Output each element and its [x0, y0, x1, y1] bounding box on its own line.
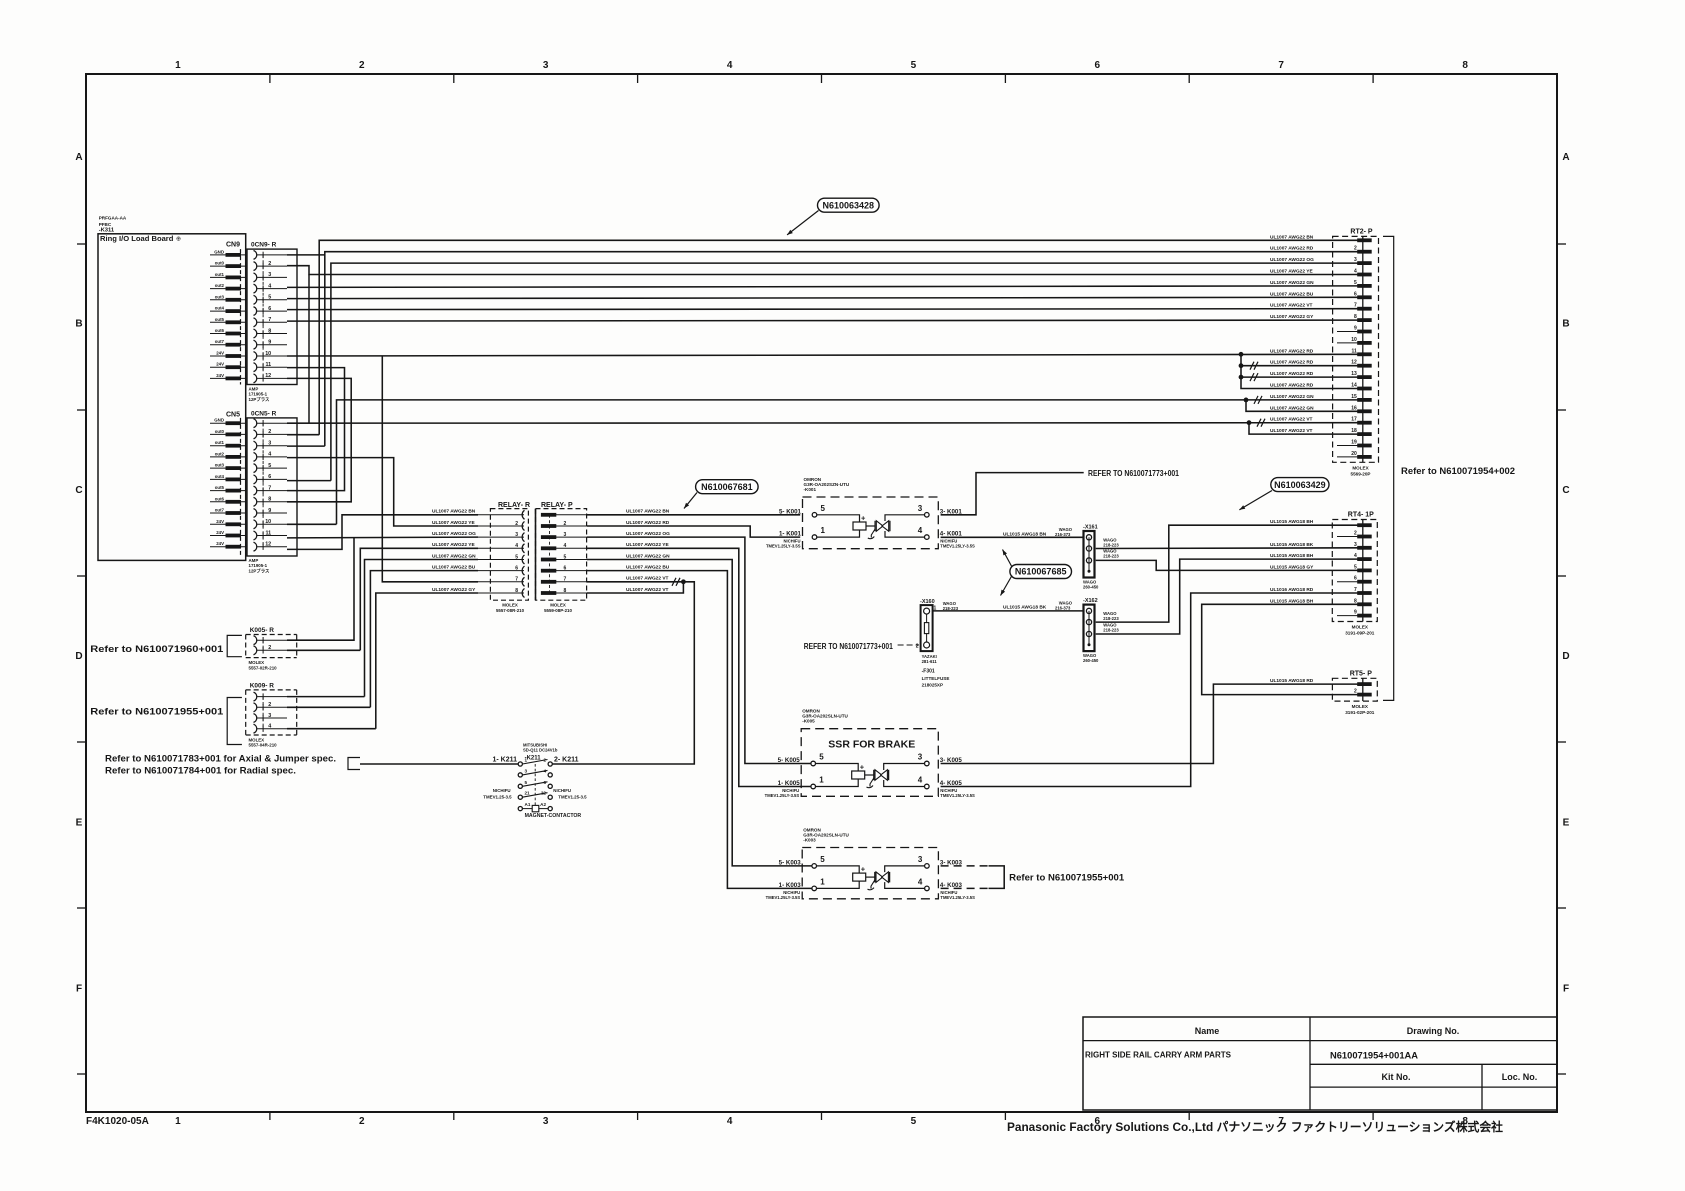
svg-text:+: +	[860, 763, 865, 772]
svg-text:UL1015 AWG18 BH: UL1015 AWG18 BH	[1270, 519, 1314, 525]
svg-text:0CN5- R: 0CN5- R	[251, 410, 277, 417]
svg-text:1: 1	[175, 60, 181, 71]
svg-text:RELAY- P: RELAY- P	[541, 502, 573, 509]
wire jumper RT2-P pin18	[1249, 423, 1362, 434]
svg-text:0CN9- R: 0CN9- R	[251, 242, 277, 249]
svg-text:UL1007 AWG22 RD: UL1007 AWG22 RD	[1270, 371, 1314, 377]
svg-text:LITTELFUSE: LITTELFUSE	[922, 676, 950, 681]
svg-text:RT4- 1P: RT4- 1P	[1348, 512, 1374, 519]
svg-text:5: 5	[268, 295, 271, 301]
connector RT2-P	[1333, 228, 1379, 476]
solid-state relay K005	[765, 709, 975, 798]
svg-text:12: 12	[265, 542, 271, 548]
svg-text:3: 3	[268, 713, 271, 719]
svg-text:UL1007 AWG22 GY: UL1007 AWG22 GY	[1270, 314, 1314, 320]
magnet contactor -K211	[483, 743, 587, 820]
svg-text:Kit No.: Kit No.	[1382, 1072, 1411, 1082]
svg-text:218-223: 218-223	[1103, 616, 1119, 621]
svg-text:out0: out0	[215, 429, 225, 434]
wire RELAY-P pin8 VT	[587, 582, 683, 593]
svg-text:UL1007 AWG22 BU: UL1007 AWG22 BU	[626, 564, 670, 570]
svg-text:TMEV1.25LY-3.5S: TMEV1.25LY-3.5S	[766, 544, 801, 549]
svg-text:24V: 24V	[216, 519, 224, 524]
svg-text:MAGNET-CONTACTOR: MAGNET-CONTACTOR	[525, 813, 582, 819]
svg-text:RIGHT SIDE RAIL CARRY ARM PART: RIGHT SIDE RAIL CARRY ARM PARTS	[1085, 1051, 1231, 1060]
svg-text:out0: out0	[215, 261, 225, 266]
svg-text:UL1007 AWG22 VT: UL1007 AWG22 VT	[1270, 417, 1313, 423]
svg-text:4: 4	[268, 452, 271, 458]
svg-text:UL1007 AWG22 BU: UL1007 AWG22 BU	[432, 564, 476, 570]
svg-text:8: 8	[268, 328, 271, 334]
wire RELAY-R pin8 to K009-R pin4	[376, 593, 478, 729]
svg-text:out7: out7	[215, 339, 225, 344]
svg-text:20: 20	[1351, 451, 1357, 457]
svg-text:24V: 24V	[216, 530, 224, 535]
terminal block -X161	[1084, 531, 1095, 578]
svg-text:UL1007 AWG22 GY: UL1007 AWG22 GY	[432, 587, 476, 593]
wire CN5 24V to RT2-P pin15	[337, 400, 1363, 524]
svg-text:4: 4	[1354, 553, 1357, 559]
svg-text:3: 3	[268, 272, 271, 278]
terminal block -X162	[1084, 605, 1095, 652]
wire RELAY-R pin6 to K009-R pin2	[370, 571, 478, 708]
svg-text:9: 9	[1354, 610, 1357, 616]
svg-text:10: 10	[1351, 337, 1357, 343]
svg-text:-K003: -K003	[803, 838, 816, 843]
balloon N610063429	[1239, 478, 1329, 510]
svg-text:UL1007 AWG22 YE: UL1007 AWG22 YE	[1270, 269, 1313, 275]
svg-text:GND: GND	[214, 249, 224, 254]
svg-text:2: 2	[268, 261, 271, 267]
wire RELAY-P pin5 GN to K003 pin5	[587, 560, 812, 866]
svg-text:5: 5	[821, 504, 826, 513]
svg-text:Loc. No.: Loc. No.	[1502, 1072, 1538, 1082]
svg-text:out4: out4	[215, 306, 225, 311]
svg-text:1: 1	[525, 758, 528, 763]
svg-text:N610071954+001AA: N610071954+001AA	[1330, 1051, 1418, 1062]
svg-text:F4K1020-05A: F4K1020-05A	[86, 1116, 149, 1127]
svg-text:C: C	[75, 485, 82, 496]
svg-text:12Pプラス: 12Pプラス	[249, 567, 271, 574]
svg-text:16: 16	[1351, 405, 1357, 411]
wire K005 pin4 to RT4-1P pin7	[941, 593, 1362, 787]
svg-text:11: 11	[265, 530, 271, 536]
svg-text:REFER TO N610071773+001: REFER TO N610071773+001	[804, 642, 893, 651]
svg-text:281-611: 281-611	[922, 659, 938, 664]
svg-text:Refer to N610071955+001: Refer to N610071955+001	[1009, 873, 1125, 884]
svg-text:5: 5	[1354, 280, 1357, 286]
reference bracket for K005-R	[227, 635, 242, 656]
svg-text:Refer to N610071955+001: Refer to N610071955+001	[90, 707, 224, 718]
svg-text:3: 3	[1354, 257, 1357, 263]
svg-text:B: B	[1562, 319, 1569, 330]
svg-text:2: 2	[268, 429, 271, 435]
svg-text:A1: A1	[525, 802, 531, 807]
wire labels at RELAY-R inputs	[432, 509, 476, 593]
svg-text:TMEV1.25LY-3.5S: TMEV1.25LY-3.5S	[765, 793, 800, 798]
wire stub RT2-P pin12	[1241, 365, 1362, 367]
svg-text:6: 6	[268, 306, 271, 312]
wire CN5 24V-2 to RELAY-R pin3 and K005-R pin1	[287, 536, 478, 539]
svg-text:24V: 24V	[216, 373, 224, 378]
svg-text:13: 13	[1351, 371, 1357, 377]
svg-text:out5: out5	[215, 485, 225, 490]
svg-text:3: 3	[564, 532, 567, 538]
svg-text:CN5: CN5	[226, 412, 240, 419]
svg-text:4: 4	[727, 1116, 733, 1127]
svg-text:5557-08R-210: 5557-08R-210	[496, 608, 525, 613]
drawing border frame	[77, 74, 1566, 1120]
svg-text:A: A	[1562, 152, 1569, 163]
connector RT5-P	[1332, 670, 1377, 715]
reference note N610071783 N610071784	[105, 754, 336, 776]
svg-text:2- K211: 2- K211	[554, 757, 579, 764]
svg-text:D: D	[1562, 651, 1569, 662]
svg-text:3191-02P-201: 3191-02P-201	[1345, 710, 1375, 715]
svg-text:10: 10	[265, 351, 271, 357]
svg-text:4: 4	[918, 526, 923, 535]
header CN5 on load board	[210, 412, 246, 549]
svg-text:260-450: 260-450	[1083, 585, 1099, 590]
svg-text:4: 4	[268, 283, 271, 289]
svg-text:1- K211: 1- K211	[492, 757, 517, 764]
svg-text:UL1007 AWG22 BU: UL1007 AWG22 BU	[1270, 291, 1314, 297]
svg-text:11: 11	[265, 362, 271, 368]
svg-text:out4: out4	[215, 474, 225, 479]
svg-text:UL1015 AWG18 BH: UL1015 AWG18 BH	[1270, 553, 1314, 559]
wire CN9 24V-2 to CN5 out5	[287, 368, 345, 491]
svg-text:TMEV1.25-3.5: TMEV1.25-3.5	[558, 795, 587, 800]
svg-text:UL1007 AWG22 GN: UL1007 AWG22 GN	[626, 553, 670, 559]
svg-text:3: 3	[525, 768, 528, 773]
svg-text:out3: out3	[215, 463, 225, 468]
svg-text:N610063429: N610063429	[1274, 480, 1326, 490]
reference bracket for K009-R	[227, 698, 242, 745]
svg-text:24V: 24V	[216, 541, 224, 546]
svg-text:8: 8	[1354, 314, 1357, 320]
connector RELAY-R	[478, 502, 530, 613]
svg-text:out3: out3	[215, 294, 225, 299]
svg-text:N610063428: N610063428	[823, 200, 875, 210]
svg-text:GND: GND	[214, 418, 224, 423]
svg-text:TMEV1.25LY-3.5S: TMEV1.25LY-3.5S	[766, 895, 801, 900]
svg-text:12: 12	[265, 373, 271, 379]
svg-text:6: 6	[268, 474, 271, 480]
grid column labels	[175, 60, 1468, 1127]
wire CN5 24V pin12 to RELAY-R pin1	[287, 515, 478, 550]
svg-text:B: B	[75, 319, 82, 330]
svg-text:Refer to N610071954+002: Refer to N610071954+002	[1401, 466, 1515, 477]
wire RELAY-P pin4 YE to K005 pin1	[587, 548, 812, 786]
svg-text:216-373: 216-373	[1055, 532, 1071, 537]
wire RELAY-P pin6 BU to K003 pin1	[587, 571, 812, 889]
svg-text:out6: out6	[215, 328, 225, 333]
svg-text:out2: out2	[215, 451, 225, 456]
wire labels RT4-1P	[1270, 519, 1314, 604]
svg-text:UL1007 AWG22 VT: UL1007 AWG22 VT	[1270, 428, 1313, 434]
svg-text:-X161: -X161	[1083, 525, 1098, 531]
svg-text:3: 3	[543, 60, 549, 71]
svg-text:260-450: 260-450	[1083, 658, 1099, 663]
svg-text:UL1007 AWG22 RD: UL1007 AWG22 RD	[1270, 383, 1314, 389]
svg-text:2: 2	[564, 521, 567, 527]
wire K001 pin4 to X161 pin1	[941, 536, 1084, 538]
solid-state relay K001	[766, 477, 975, 549]
svg-text:E: E	[76, 817, 83, 828]
svg-text:218025XP: 218025XP	[922, 683, 943, 688]
svg-text:8: 8	[564, 588, 567, 594]
wire fuse X160 to X162 pin1	[933, 610, 1084, 612]
svg-text:E: E	[1563, 817, 1570, 828]
svg-text:⊕: ⊕	[176, 237, 181, 243]
svg-text:5: 5	[525, 780, 528, 785]
svg-text:UL1007 AWG22 RD: UL1007 AWG22 RD	[626, 520, 670, 526]
svg-text:MOLEX: MOLEX	[502, 603, 518, 608]
connector 0CN5-R	[241, 410, 298, 574]
wire CN5 out0 to RT2-P pin1	[319, 240, 1362, 434]
wire CN5 out3 to RT2-P pin3	[331, 263, 1362, 481]
svg-text:6: 6	[1354, 291, 1357, 297]
svg-text:218-223: 218-223	[1103, 543, 1119, 548]
svg-text:5569-20P: 5569-20P	[1351, 471, 1371, 476]
solid-state relay K003	[766, 828, 975, 900]
reference bracket K211 wire	[348, 758, 360, 770]
svg-text:7: 7	[268, 485, 271, 491]
svg-text:A2: A2	[540, 802, 546, 807]
svg-text:3: 3	[1354, 542, 1357, 548]
svg-text:UL1007 AWG22 RD: UL1007 AWG22 RD	[1270, 360, 1314, 366]
svg-text:5: 5	[911, 1116, 917, 1127]
svg-text:UL1015 AWG18 BK: UL1015 AWG18 BK	[1270, 542, 1314, 548]
svg-text:Drawing No.: Drawing No.	[1407, 1026, 1460, 1036]
wire RELAY-R pin5 to K009-R pin1	[365, 560, 479, 697]
svg-text:out7: out7	[215, 508, 225, 513]
svg-text:3191-09P-201: 3191-09P-201	[1345, 631, 1375, 636]
svg-text:7: 7	[1278, 60, 1284, 71]
wire jumper RT2-P pin14	[1241, 354, 1362, 388]
svg-text:12: 12	[1351, 360, 1357, 366]
svg-text:Refer to N610071783+001 for Ax: Refer to N610071783+001 for Axial & Jump…	[105, 754, 336, 764]
svg-text:4: 4	[918, 877, 923, 886]
svg-text:Panasonic Factory Solutions Co: Panasonic Factory Solutions Co.,Ltd パナソニ…	[1007, 1119, 1503, 1134]
svg-text:UL1007 AWG22 GN: UL1007 AWG22 GN	[1270, 280, 1314, 286]
svg-text:3: 3	[918, 855, 923, 864]
svg-text:2: 2	[268, 702, 271, 708]
svg-text:6: 6	[1095, 60, 1101, 71]
svg-text:14: 14	[1351, 383, 1357, 389]
svg-text:MOLEX: MOLEX	[1352, 704, 1369, 709]
wire CN9 out3 to RT2-P pin6	[287, 297, 1362, 298]
svg-text:21: 21	[525, 791, 531, 796]
svg-text:PFBC: PFBC	[99, 222, 112, 227]
svg-text:TMEV1.25-3.5: TMEV1.25-3.5	[483, 795, 512, 800]
svg-text:D: D	[75, 651, 82, 662]
svg-text:17: 17	[1351, 417, 1357, 423]
svg-text:1: 1	[820, 877, 825, 886]
connector RT4-1P	[1332, 512, 1377, 636]
svg-text:UL1007 AWG22 RD: UL1007 AWG22 RD	[1270, 246, 1314, 252]
svg-text:out5: out5	[215, 317, 225, 322]
svg-text:A: A	[75, 152, 82, 163]
svg-text:UL1007 AWG22 OG: UL1007 AWG22 OG	[626, 531, 670, 537]
svg-text:11: 11	[1352, 348, 1358, 354]
svg-text:7: 7	[564, 577, 567, 583]
wire RELAY-P pin2 RD to K001 pin1	[587, 526, 800, 537]
svg-text:UL1007 AWG22 GN: UL1007 AWG22 GN	[1270, 394, 1314, 400]
svg-text:2: 2	[916, 644, 919, 650]
bracket K003 to refer note	[941, 865, 989, 867]
svg-text:-K005: -K005	[802, 719, 815, 724]
harness bracket to N610071954+002	[1383, 236, 1394, 700]
svg-text:15: 15	[1351, 394, 1357, 400]
title block	[1083, 1017, 1557, 1110]
wire RELAY-P pin1 BN to K001 pin5	[587, 514, 800, 516]
wire CN5 pin4 to RELAY-R pin2	[287, 458, 478, 526]
svg-text:5: 5	[564, 554, 567, 560]
svg-text:24V: 24V	[216, 351, 224, 356]
svg-text:UL1007 AWG22 VT: UL1007 AWG22 VT	[1270, 303, 1313, 309]
wire CN5 GND to RT2-P pin17	[287, 422, 1362, 425]
svg-text:UL1007 AWG22 RD: UL1007 AWG22 RD	[1270, 348, 1314, 354]
svg-text:5: 5	[268, 463, 271, 469]
svg-text:216-373: 216-373	[1055, 606, 1071, 611]
header CN9 on load board	[210, 242, 246, 381]
svg-text:PRFGAA-AA: PRFGAA-AA	[99, 216, 127, 221]
svg-text:TMEV1.25LY-3.5S: TMEV1.25LY-3.5S	[940, 544, 975, 549]
svg-text:MOLEX: MOLEX	[550, 603, 566, 608]
connector RELAY-P	[536, 502, 588, 613]
svg-text:UL1015 AWG18 RD: UL1015 AWG18 RD	[1270, 678, 1314, 684]
svg-text:UL1007 AWG22 YE: UL1007 AWG22 YE	[432, 542, 475, 548]
svg-text:5: 5	[820, 855, 825, 864]
svg-text:7: 7	[1354, 303, 1357, 309]
svg-text:9: 9	[1354, 326, 1357, 332]
svg-text:TMEV1.25LY-3.5S: TMEV1.25LY-3.5S	[940, 895, 975, 900]
svg-text:C: C	[1562, 485, 1569, 496]
svg-text:CN9: CN9	[226, 242, 240, 249]
svg-text:UL1007 AWG22 BN: UL1007 AWG22 BN	[626, 509, 670, 515]
wire X161 pin3 to RT4-1P pin5	[1096, 560, 1362, 570]
svg-text:-X160: -X160	[920, 599, 935, 605]
svg-text:-K311: -K311	[99, 227, 115, 233]
svg-text:REFER TO N610071773+001: REFER TO N610071773+001	[1088, 469, 1179, 478]
svg-text:-X162: -X162	[1083, 598, 1098, 604]
wire CN9 out5 to RT2-P pin8	[287, 320, 1362, 321]
svg-text:RELAY- R: RELAY- R	[498, 502, 530, 509]
svg-text:2: 2	[359, 1116, 365, 1127]
wire X162 pin2 to RT4-1P pin1	[1096, 525, 1362, 622]
svg-text:NICHIFU: NICHIFU	[553, 788, 571, 793]
svg-text:4: 4	[268, 724, 271, 730]
svg-text:8: 8	[268, 497, 271, 503]
svg-text:-K001: -K001	[804, 487, 817, 492]
wire stub RT2-P pin13	[1241, 376, 1362, 378]
svg-text:3: 3	[918, 753, 923, 762]
svg-text:UL1016 AWG18 RD: UL1016 AWG18 RD	[1270, 587, 1314, 593]
svg-text:N610067685: N610067685	[1015, 567, 1067, 577]
wire RELAY-P pin7 VT junction	[587, 581, 683, 583]
svg-text:24V: 24V	[216, 362, 224, 367]
svg-text:UL1007 AWG22 OG: UL1007 AWG22 OG	[432, 531, 476, 537]
svg-text:MOLEX: MOLEX	[1352, 625, 1369, 630]
svg-text:3: 3	[918, 504, 923, 513]
svg-text:9: 9	[268, 508, 271, 514]
svg-text:8: 8	[1462, 60, 1468, 71]
svg-text:2: 2	[268, 645, 271, 651]
svg-text:2: 2	[1354, 531, 1357, 537]
svg-text:UL1015 AWG18 BN: UL1015 AWG18 BN	[1003, 531, 1047, 537]
svg-text:-F301: -F301	[922, 669, 935, 675]
wire jumper RT2-P pin16	[1246, 400, 1362, 411]
svg-text:3: 3	[268, 441, 271, 447]
svg-text:Refer to N610071960+001: Refer to N610071960+001	[90, 644, 224, 655]
svg-text:RT2- P: RT2- P	[1350, 228, 1373, 235]
svg-text:1: 1	[819, 776, 824, 785]
svg-text:UL1007 AWG22 GN: UL1007 AWG22 GN	[1270, 405, 1314, 411]
svg-text:1: 1	[175, 1116, 181, 1127]
wire RELAY-R pin4 to K005-R pin2	[360, 548, 478, 650]
wire RELAY-P pin3 OG to K005 pin5	[587, 537, 812, 763]
wire RT4-1P pin8 to RT5-P pin2	[1202, 604, 1362, 694]
svg-text:4: 4	[564, 543, 567, 549]
wire K005 pin3 to RT5-P pin1	[941, 684, 1362, 763]
wire K001 pin3 to refer note	[941, 473, 1084, 515]
wire X162 pin3 to RT4-1P pin4	[1096, 559, 1362, 634]
balloon N610063428	[787, 198, 879, 235]
svg-text:UL1007 AWG22 YE: UL1007 AWG22 YE	[626, 542, 669, 548]
svg-text:1: 1	[821, 526, 826, 535]
svg-text:2: 2	[359, 60, 365, 71]
connector K005-R	[246, 627, 297, 670]
svg-text:7: 7	[1354, 587, 1357, 593]
wire branch down to GND bus	[308, 275, 310, 424]
svg-text:UL1007 AWG22 OG: UL1007 AWG22 OG	[1270, 257, 1314, 263]
svg-text:UL1007 AWG22 YE: UL1007 AWG22 YE	[432, 520, 475, 526]
svg-text:K005- R: K005- R	[250, 627, 275, 634]
svg-text:12Pプラス: 12Pプラス	[249, 396, 271, 403]
svg-text:+: +	[861, 865, 866, 874]
svg-text:6: 6	[1354, 576, 1357, 582]
svg-text:+: +	[861, 514, 866, 523]
grid row labels	[75, 152, 1569, 995]
svg-text:F: F	[1563, 984, 1569, 995]
svg-text:SSR FOR BRAKE: SSR FOR BRAKE	[828, 739, 915, 751]
svg-text:UL1015 AWG18 BH: UL1015 AWG18 BH	[1270, 598, 1314, 604]
svg-text:4: 4	[1354, 269, 1357, 275]
wire labels at RELAY-P outputs	[626, 509, 670, 593]
svg-text:10: 10	[265, 519, 271, 525]
svg-text:out6: out6	[215, 496, 225, 501]
svg-text:Ring I/O Load Board: Ring I/O Load Board	[100, 234, 174, 243]
connector 0CN9-R	[241, 242, 298, 403]
svg-text:F: F	[76, 984, 82, 995]
leader line to fuse pin 2	[898, 644, 919, 646]
wire CN9 out0 to RT2-P pin4	[287, 266, 1362, 275]
wire CN9 GND / CN5 out1 to RT2-P pin2	[287, 254, 325, 256]
svg-text:out1: out1	[215, 440, 225, 445]
svg-text:N610067681: N610067681	[701, 482, 753, 492]
svg-text:4: 4	[727, 60, 733, 71]
svg-text:4: 4	[918, 776, 923, 785]
svg-text:K009- R: K009- R	[250, 682, 275, 689]
svg-text:UL1007 AWG22 BN: UL1007 AWG22 BN	[1270, 234, 1314, 240]
svg-text:2: 2	[1354, 689, 1357, 695]
svg-text:UL1007 AWG22 VT: UL1007 AWG22 VT	[626, 587, 669, 593]
wire CN9 24V-3 to CN5 out6	[287, 378, 351, 501]
wire 24V bus to RT2-P pin11 and RELAY-R pin7	[287, 354, 1362, 356]
wire X161 pin2 to RT4-1P pin3	[1096, 547, 1362, 550]
ring I/O load board -K311	[98, 216, 246, 561]
